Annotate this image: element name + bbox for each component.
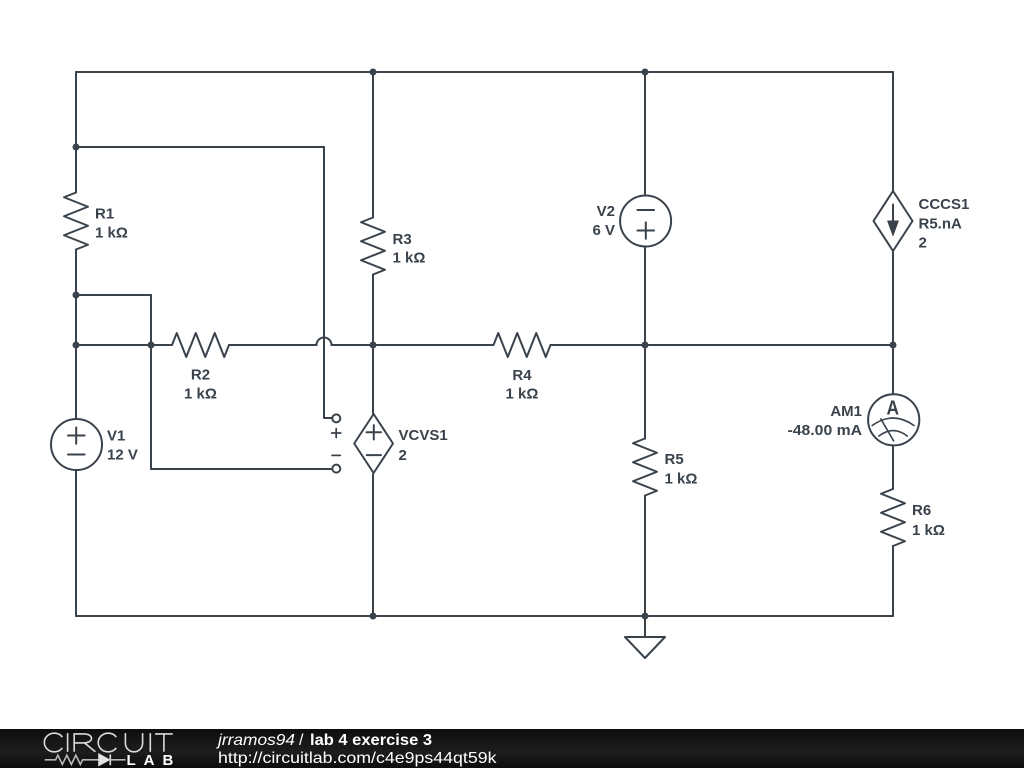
svg-text:1 kΩ: 1 kΩ xyxy=(506,386,539,403)
junction top rail / R3 xyxy=(370,69,377,76)
svg-text:6 V: 6 V xyxy=(592,222,615,239)
svg-text:VCVS1: VCVS1 xyxy=(399,427,448,444)
junction bottom rail / VCVS1 xyxy=(370,613,377,620)
wire left rail middle xyxy=(75,250,77,420)
wire R6 to bottom rail xyxy=(892,546,894,616)
svg-text:R6: R6 xyxy=(912,502,931,519)
junction left rail / node B xyxy=(73,144,80,151)
CircuitLab logo resistor-diode art xyxy=(45,754,126,765)
wire vertical x151 xyxy=(150,295,152,469)
wire node B horizontal y147 xyxy=(76,146,324,148)
voltage source V1 xyxy=(51,419,102,470)
svg-text:1 kΩ: 1 kΩ xyxy=(184,386,217,403)
wire y469 to minus terminal xyxy=(151,468,332,470)
svg-text:R5.nA: R5.nA xyxy=(919,216,963,233)
svg-text:V1: V1 xyxy=(107,428,125,445)
wire mid rail hop to R4 xyxy=(332,344,494,346)
resistor R3 xyxy=(361,218,385,275)
junction left rail / mid rail xyxy=(73,342,80,349)
wire R3 to VCVS1 xyxy=(372,275,374,415)
junction mid rail / x151 branch xyxy=(148,342,155,349)
wire left rail upper xyxy=(75,72,77,193)
svg-text:12 V: 12 V xyxy=(107,447,138,464)
resistor R6 xyxy=(881,489,905,546)
controlled source VCVS1 xyxy=(354,414,393,473)
svg-text:2: 2 xyxy=(399,447,407,464)
CircuitLab logo CIRCUIT xyxy=(44,733,172,752)
junction mid rail / V2-R5 xyxy=(642,342,649,349)
wire top to V2 xyxy=(644,72,646,196)
ground xyxy=(625,616,665,658)
junction mid rail / R3-VCVS1 xyxy=(370,342,377,349)
svg-text:1 kΩ: 1 kΩ xyxy=(912,522,945,539)
wire R5 to bottom rail xyxy=(644,496,646,617)
svg-text:AM1: AM1 xyxy=(830,403,862,420)
resistor R1 xyxy=(64,193,88,250)
resistor R4 xyxy=(494,333,551,357)
wire left rail lower xyxy=(75,470,77,616)
svg-text:R1: R1 xyxy=(95,206,114,223)
resistor R5 xyxy=(633,439,657,496)
wire V2 to R5 xyxy=(644,247,646,439)
VCVS1 minus control terminal xyxy=(332,455,340,472)
svg-text:1 kΩ: 1 kΩ xyxy=(95,225,128,242)
wire hop over x324 xyxy=(317,338,332,345)
voltage source V2 xyxy=(620,196,671,247)
controlled source CCCS1 xyxy=(874,191,913,251)
wire node C horizontal y295 xyxy=(76,294,151,296)
wire mid rail R2 to hop xyxy=(229,344,317,346)
svg-text:2: 2 xyxy=(919,235,927,252)
VCVS1 plus control terminal xyxy=(332,414,341,437)
svg-text:R2: R2 xyxy=(191,367,210,384)
junction bottom rail / ground xyxy=(642,613,649,620)
wire top to R3 xyxy=(372,72,374,218)
svg-text:http://circuitlab.com/c4e9ps44: http://circuitlab.com/c4e9ps44qt59k xyxy=(218,750,498,767)
svg-text:A: A xyxy=(887,398,900,420)
wire VCVS1 to bottom rail xyxy=(372,474,374,616)
footer bar xyxy=(0,729,1024,768)
wire right rail CCCS1 to AM1 xyxy=(892,251,894,394)
wire mid rail left of R2 xyxy=(76,344,172,346)
svg-text:LAB: LAB xyxy=(127,752,182,768)
resistor R2 xyxy=(172,333,229,357)
svg-text:CCCS1: CCCS1 xyxy=(919,196,970,213)
svg-text:1 kΩ: 1 kΩ xyxy=(393,250,426,267)
svg-text:lab 4 exercise 3: lab 4 exercise 3 xyxy=(310,732,432,749)
svg-text:-48.00 mA: -48.00 mA xyxy=(788,422,863,439)
junction top rail / V2 xyxy=(642,69,649,76)
svg-text:/: / xyxy=(299,732,304,749)
svg-text:R4: R4 xyxy=(512,367,532,384)
svg-text:jrramos94: jrramos94 xyxy=(216,732,295,749)
wire right rail upper xyxy=(892,72,894,191)
svg-text:V2: V2 xyxy=(597,203,615,220)
junction left rail / node C xyxy=(73,292,80,299)
svg-text:R3: R3 xyxy=(393,231,412,248)
wire top rail xyxy=(76,71,893,73)
wire vertical x324 to plus terminal xyxy=(324,147,332,418)
ammeter AM1 xyxy=(868,394,919,445)
wire bottom rail xyxy=(76,615,893,617)
wire mid rail right of R4 xyxy=(551,344,894,346)
svg-text:1 kΩ: 1 kΩ xyxy=(665,471,698,488)
wire AM1 to R6 xyxy=(892,446,894,490)
junction mid rail / CCCS1-AM1 xyxy=(890,342,897,349)
svg-text:R5: R5 xyxy=(665,451,684,468)
